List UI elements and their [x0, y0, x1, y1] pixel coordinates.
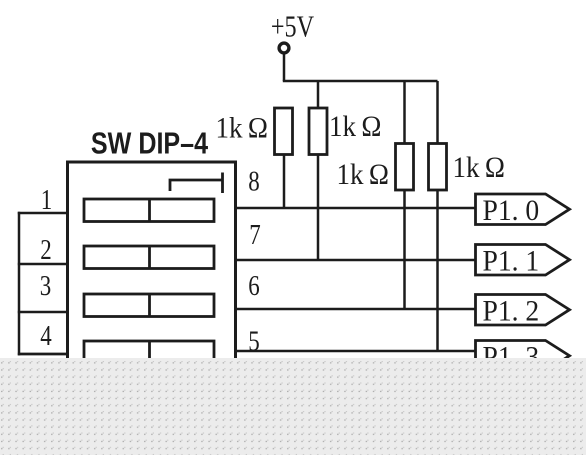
switch S1 package outline (SW DIP-4) [68, 162, 236, 455]
resistor R1 body [275, 108, 293, 155]
svg-text:P1. 1: P1. 1 [483, 244, 540, 277]
wire: pin 4 stub [18, 353, 68, 356]
switch rocker 4 [84, 341, 214, 364]
svg-text:1k Ω: 1k Ω [453, 152, 505, 185]
svg-text:2: 2 [40, 234, 51, 266]
switch actuator mark [170, 173, 223, 194]
wire: pin 6 to P1.2 [236, 308, 476, 311]
wire: pin 3 stub [18, 311, 68, 314]
svg-text:1k Ω: 1k Ω [337, 159, 389, 192]
port flag P1.0 [476, 194, 570, 225]
wire: left common bus [18, 212, 21, 356]
svg-text:1k Ω: 1k Ω [329, 111, 381, 144]
resistor R3 body [396, 144, 414, 191]
wire: bus tap to R4 [436, 81, 439, 145]
svg-text:P1. 0: P1. 0 [483, 194, 540, 227]
wire: bus tap to R3 [403, 81, 406, 145]
wire: R2 to pin7 net [317, 155, 320, 261]
svg-text:SW DIP–4: SW DIP–4 [91, 125, 208, 160]
wire: R1 to pin8 net [283, 155, 286, 209]
resistor R2 body [309, 108, 327, 155]
wire: pin 7 to P1.1 [236, 259, 476, 262]
wire: pin 1 stub [18, 212, 68, 215]
port flag P1.1 [476, 245, 570, 276]
svg-text:6: 6 [248, 270, 260, 302]
svg-text:4: 4 [40, 320, 52, 352]
port flag P1.3 [476, 341, 570, 372]
svg-text:P1. 2: P1. 2 [483, 294, 540, 327]
svg-text:+5V: +5V [271, 10, 314, 45]
wire: +5V terminal to bus [283, 53, 286, 81]
svg-text:3: 3 [40, 270, 51, 302]
switch rocker 3 [84, 294, 214, 317]
switch rocker 1 [84, 199, 214, 222]
wire: R3 to pin6 net [403, 190, 406, 309]
port flag P1.2 [476, 295, 570, 326]
resistor R4 body [429, 144, 447, 191]
switch rocker 2 [84, 246, 214, 269]
wire: +5V horizontal bus [283, 80, 438, 83]
svg-text:1: 1 [41, 184, 52, 216]
svg-text:1k Ω: 1k Ω [216, 112, 268, 145]
wire: pin 2 stub [18, 263, 68, 266]
svg-text:5: 5 [248, 325, 259, 357]
wire: bus tap to R2 [317, 81, 320, 109]
wire: R4 to pin5 net [436, 190, 439, 351]
svg-text:8: 8 [248, 165, 259, 197]
wire: pin 8 to P1.0 [236, 207, 476, 210]
svg-text:7: 7 [249, 219, 261, 251]
wire: pin 5 to P1.3 [236, 350, 476, 353]
+5V terminal circle [279, 43, 289, 53]
